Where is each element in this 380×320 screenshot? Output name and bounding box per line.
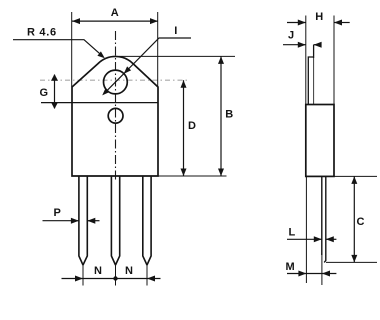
dimension A line with arrows bbox=[72, 20, 158, 22]
lead 3 tip extension hairline bbox=[146, 263, 148, 286]
lead end extension to C bbox=[326, 261, 377, 263]
front view body outline bbox=[72, 56, 158, 176]
svg-text:G: G bbox=[40, 87, 49, 99]
tab right edge lower segment bbox=[313, 58, 315, 105]
dimension P line with arrows bbox=[43, 220, 79, 222]
svg-text:R 4.6: R 4.6 bbox=[27, 26, 57, 38]
svg-text:H: H bbox=[315, 11, 323, 23]
H extension line left / tab left edge bbox=[305, 16, 307, 105]
dimension B line with arrows bbox=[220, 56, 222, 176]
lead 3 (right) outline bbox=[143, 176, 151, 265]
tab/body separator line bbox=[41, 102, 158, 104]
body bottom extension line to B bbox=[158, 175, 227, 177]
dimension C line with arrows bbox=[353, 176, 355, 262]
dimension D line with arrows bbox=[183, 80, 185, 176]
diameter arrowhead lower-left bbox=[102, 88, 109, 95]
tab inner step line with tick bbox=[308, 57, 313, 105]
lead 1 tip extension hairline bbox=[82, 263, 84, 286]
svg-text:N: N bbox=[94, 265, 102, 277]
svg-text:C: C bbox=[357, 216, 365, 228]
hole diameter line through circle bbox=[107, 74, 124, 91]
dome apex extension line to B bbox=[119, 55, 235, 57]
R4.6 leader line bbox=[13, 40, 103, 57]
dimension H line with arrows bbox=[287, 22, 306, 24]
svg-text:P: P bbox=[54, 207, 61, 219]
svg-text:N: N bbox=[125, 265, 133, 277]
mounting hole (large circle) bbox=[104, 70, 128, 94]
dimension N line bbox=[62, 278, 161, 280]
H extension line right bbox=[333, 16, 335, 105]
body left edge extension down to M bbox=[305, 176, 307, 283]
front view: horizontal hole centerline (dash-dot) bbox=[40, 79, 188, 81]
tab right edge upper segment bbox=[313, 45, 315, 58]
side view body outline bbox=[306, 105, 334, 177]
lead 2 tip extension hairline bbox=[115, 263, 117, 286]
svg-text:D: D bbox=[188, 120, 196, 132]
diameter arrowhead upper-right bbox=[124, 66, 131, 73]
R4.6 leader arrowhead bbox=[97, 51, 104, 58]
lead 2 (center) outline bbox=[111, 176, 119, 265]
dimension L line with arrows bbox=[287, 238, 322, 240]
I leader underline and diagonal bbox=[124, 38, 191, 74]
N arrowhead left bbox=[75, 276, 83, 282]
side lead outline bbox=[322, 176, 326, 262]
svg-text:L: L bbox=[289, 227, 296, 239]
svg-text:I: I bbox=[174, 25, 177, 37]
dimension M line with arrows bbox=[287, 273, 336, 275]
lead 1 (left) outline bbox=[79, 176, 87, 265]
svg-text:J: J bbox=[288, 30, 294, 42]
N center junction dot bbox=[113, 276, 117, 280]
body bottom extension to C bbox=[334, 175, 377, 177]
dimension G line and arrows bbox=[54, 75, 56, 109]
front view: vertical centerline (dash-dot) bbox=[115, 31, 117, 181]
dimension J line with arrows bbox=[283, 44, 306, 46]
svg-text:B: B bbox=[225, 108, 233, 120]
dimension A extension lines bbox=[71, 12, 73, 87]
small hole below bbox=[108, 108, 123, 123]
N arrowhead right bbox=[147, 276, 155, 282]
side lead tip hairline bbox=[321, 253, 323, 285]
svg-text:A: A bbox=[111, 7, 119, 19]
svg-text:M: M bbox=[286, 261, 295, 273]
